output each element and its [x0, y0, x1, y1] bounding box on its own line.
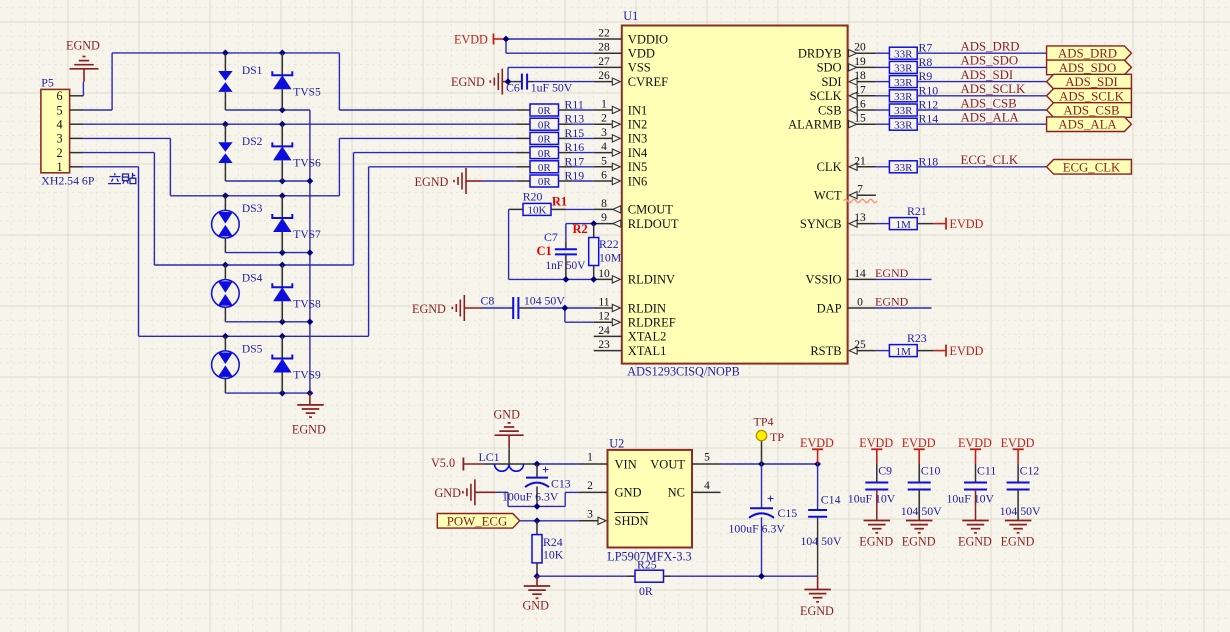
svg-text:U1: U1 — [623, 9, 638, 23]
resistor R7 33R — [876, 41, 1047, 61]
svg-text:R20: R20 — [523, 190, 543, 204]
svg-text:DAP: DAP — [817, 301, 842, 315]
svg-text:19: 19 — [854, 56, 866, 68]
svg-text:C6: C6 — [506, 81, 520, 95]
regulator U2 LP5907 body — [607, 437, 692, 564]
TVS diode TVS7 — [272, 196, 321, 253]
svg-text:IN6: IN6 — [628, 174, 647, 188]
U1 pin 5 IN5 — [594, 155, 648, 174]
U1 pin 21 CLK — [817, 155, 876, 174]
svg-text:6: 6 — [601, 170, 607, 182]
svg-text:ADS_SDI: ADS_SDI — [1065, 75, 1118, 89]
svg-text:0: 0 — [857, 297, 863, 309]
resistor R19 0R — [516, 169, 594, 189]
svg-text:GND: GND — [615, 486, 642, 500]
junction DS5 top — [222, 333, 229, 340]
port ADS_SDO — [1047, 60, 1132, 75]
power EVDD (at C9) — [859, 436, 893, 464]
U1 pin 14 VSSIO — [805, 268, 875, 287]
resistor R25 0R — [627, 558, 671, 599]
resistor R17 0R — [516, 154, 594, 174]
wire VOUT to EVDD — [721, 463, 818, 465]
net label ADS_DRD — [961, 40, 1020, 54]
ground EGND (below diode bus) — [292, 393, 326, 436]
port ADS_SDI — [1047, 74, 1132, 89]
svg-text:SDI: SDI — [821, 75, 841, 89]
wire IN2 net (P5.4 to R13) — [83, 123, 515, 125]
U1 pin 11 RLDIN — [594, 297, 666, 316]
svg-text:ADS_DRD: ADS_DRD — [961, 40, 1020, 54]
junction TVS8 bottom — [279, 318, 286, 325]
svg-text:25: 25 — [854, 339, 866, 351]
svg-text:10uF 10V: 10uF 10V — [947, 492, 995, 506]
power EVDD (VOUT) — [800, 436, 834, 464]
svg-text:R22: R22 — [599, 237, 619, 251]
svg-text:0R: 0R — [538, 148, 552, 160]
svg-text:12: 12 — [598, 311, 610, 323]
junction EVDD-C14 — [814, 461, 821, 468]
svg-text:DS1: DS1 — [242, 65, 263, 77]
U2 pin 1 VIN — [579, 452, 637, 472]
svg-text:C12: C12 — [1020, 464, 1040, 478]
connector P5 value label XH2.54 6P — [41, 173, 136, 188]
svg-text:TVS6: TVS6 — [293, 158, 321, 170]
junction TVS9 top — [279, 333, 286, 340]
svg-text:EGND: EGND — [958, 535, 992, 549]
U1 pin 7 WCT — [814, 184, 876, 203]
U2 pin 2 GND — [579, 480, 642, 500]
TVS diode TVS9 — [272, 336, 321, 393]
power EVDD (at R23) — [934, 344, 984, 358]
svg-text:1: 1 — [601, 99, 607, 111]
resistor R24 10K — [532, 521, 564, 576]
diode DS2 — [218, 124, 262, 181]
junction TVS7 top — [279, 192, 286, 199]
U1 pin 10 RLDINV — [594, 268, 675, 287]
svg-text:TP: TP — [770, 430, 784, 444]
ground EGND (output rail) — [800, 576, 834, 618]
svg-text:EGND: EGND — [800, 604, 834, 618]
svg-text:VIN: VIN — [615, 457, 637, 471]
U1 pin 12 RLDREF — [594, 311, 676, 330]
net label EGND (pin 0) — [875, 295, 909, 309]
capacitor C10 104 50V — [901, 464, 942, 521]
svg-text:33R: 33R — [894, 91, 913, 103]
svg-text:R21: R21 — [907, 204, 927, 218]
svg-text:EGND: EGND — [451, 75, 485, 89]
filter LC1 — [479, 448, 538, 471]
svg-text:ADS_ALA: ADS_ALA — [1058, 118, 1117, 132]
resistor R8 33R — [876, 55, 1047, 75]
svg-text:C13: C13 — [551, 477, 571, 491]
svg-text:EVDD: EVDD — [950, 344, 984, 358]
svg-text:104 50V: 104 50V — [524, 294, 565, 308]
U1 pin 19 SDO — [817, 56, 876, 75]
svg-text:3: 3 — [56, 132, 62, 146]
svg-text:33R: 33R — [894, 63, 913, 75]
svg-text:EGND: EGND — [66, 39, 100, 53]
svg-text:R23: R23 — [907, 331, 927, 345]
svg-text:26: 26 — [598, 70, 610, 82]
svg-text:EGND: EGND — [902, 535, 936, 549]
net label ADS_ALA — [961, 111, 1020, 125]
U1 pin 20 DRDYB — [798, 42, 876, 61]
red overlay label C1 — [537, 244, 552, 258]
net label EGND (pin 14) — [875, 266, 909, 280]
svg-text:100uF 6.3V: 100uF 6.3V — [502, 490, 559, 504]
svg-text:RLDOUT: RLDOUT — [628, 217, 679, 231]
svg-text:6: 6 — [56, 89, 62, 103]
junction TVS5 bottom — [279, 107, 286, 114]
svg-text:SCLK: SCLK — [810, 89, 842, 103]
capacitor C14 104 50V — [801, 464, 842, 576]
capacitor C11 10uF 10V — [947, 464, 997, 521]
ground EGND (at C8) — [412, 295, 482, 321]
wire IN5 net (P5.1 detour through DS5 tops to R17) — [83, 167, 515, 336]
svg-text:0R: 0R — [538, 119, 552, 131]
svg-text:ADS_SDO: ADS_SDO — [961, 54, 1019, 68]
svg-text:4: 4 — [601, 141, 607, 153]
svg-text:ADS_CSB: ADS_CSB — [961, 96, 1017, 110]
svg-text:2: 2 — [56, 146, 62, 160]
svg-text:15: 15 — [854, 113, 866, 125]
svg-text:RLDIN: RLDIN — [628, 301, 666, 315]
svg-text:ECG_CLK: ECG_CLK — [961, 153, 1019, 167]
svg-text:IN4: IN4 — [628, 146, 648, 160]
junction bus row DS5 — [307, 390, 314, 397]
svg-text:13: 13 — [854, 212, 866, 224]
svg-text:DS4: DS4 — [242, 272, 263, 284]
junction DS4 top — [222, 262, 229, 269]
resistor R15 0R — [516, 126, 594, 146]
svg-text:33R: 33R — [894, 48, 913, 60]
junction TVS6 bottom — [279, 178, 286, 185]
svg-text:5: 5 — [601, 155, 607, 167]
port ADS_SCLK — [1047, 89, 1132, 104]
svg-text:21: 21 — [854, 155, 866, 167]
svg-text:EVDD: EVDD — [859, 436, 893, 450]
svg-text:7: 7 — [857, 184, 863, 196]
ground EGND (at R19 input) — [415, 168, 516, 194]
resistor R12 33R — [876, 98, 1047, 118]
junction EGND-C6 node — [505, 78, 512, 85]
svg-text:10K: 10K — [543, 548, 564, 562]
junction TP4 — [758, 461, 765, 468]
wire RLDOUT node — [566, 224, 594, 242]
svg-text:EGND: EGND — [875, 266, 909, 280]
svg-text:ADS_CSB: ADS_CSB — [1063, 104, 1119, 118]
capacitor C13 100uF 6.3V — [502, 463, 571, 506]
ground EGND (top-left) — [66, 39, 100, 82]
junction RLDOUT-R22 — [590, 220, 597, 227]
svg-text:SHDN: SHDN — [615, 514, 649, 528]
U1 pin 9 RLDOUT — [594, 212, 679, 231]
svg-text:1: 1 — [587, 452, 593, 464]
svg-text:XTAL1: XTAL1 — [628, 344, 667, 358]
svg-text:5: 5 — [56, 103, 62, 117]
svg-text:3: 3 — [587, 508, 593, 520]
svg-text:18: 18 — [854, 70, 866, 82]
port ECG_CLK — [1047, 160, 1132, 175]
ground EGND (at C6) — [451, 69, 508, 95]
svg-text:XTAL2: XTAL2 — [628, 330, 667, 344]
power EVDD (U1 supply) — [454, 32, 506, 46]
svg-text:RLDINV: RLDINV — [628, 273, 675, 287]
svg-text:ADS_SCLK: ADS_SCLK — [1059, 89, 1124, 103]
svg-text:104 50V: 104 50V — [901, 504, 942, 518]
svg-text:22: 22 — [598, 28, 610, 40]
svg-text:DRDYB: DRDYB — [798, 47, 842, 61]
junction C15-rail — [758, 573, 765, 580]
svg-text:CSB: CSB — [818, 103, 842, 117]
svg-text:ADS1293CISQ/NOPB: ADS1293CISQ/NOPB — [627, 365, 739, 379]
junction DS3 top — [222, 192, 229, 199]
svg-text:VSSIO: VSSIO — [805, 273, 841, 287]
wire EGND to VSS/CVREF — [508, 67, 594, 81]
svg-text:1M: 1M — [896, 346, 912, 358]
U1 pin 28 VDD — [594, 42, 655, 61]
resistor R23 1M — [876, 331, 934, 358]
svg-text:ALARMB: ALARMB — [788, 118, 841, 132]
svg-text:TVS8: TVS8 — [293, 298, 321, 310]
svg-text:VDDIO: VDDIO — [628, 32, 668, 46]
svg-text:ADS_SDI: ADS_SDI — [961, 68, 1014, 82]
svg-text:20: 20 — [854, 42, 866, 54]
U1 pin 18 SDI — [821, 70, 875, 89]
power EVDD (at C12) — [1001, 436, 1035, 464]
U2 pin 5 VOUT — [650, 452, 720, 472]
svg-text:24: 24 — [598, 325, 610, 337]
U1 pin 6 IN6 — [594, 170, 648, 189]
junction V5-C13 — [534, 461, 541, 468]
red overlay label R2 — [573, 222, 588, 236]
junction TVS7 bottom — [279, 249, 286, 256]
resistor R16 0R — [516, 140, 594, 160]
op-amp U1 ADS1293 body — [622, 9, 848, 379]
svg-text:GND: GND — [435, 486, 462, 500]
wire EVDD to pins 22/28 — [506, 39, 594, 53]
power EVDD (at R21) — [934, 217, 984, 231]
ground GND (below R24) — [523, 576, 551, 612]
svg-text:0R: 0R — [538, 176, 552, 188]
net label ADS_SCLK — [961, 82, 1026, 96]
diode DS4 — [212, 265, 263, 322]
wire V5 node to U2 VIN — [537, 463, 579, 465]
svg-text:RSTB: RSTB — [810, 344, 841, 358]
svg-text:3: 3 — [601, 127, 607, 139]
svg-text:SYNCB: SYNCB — [800, 217, 842, 231]
resistor R21 1M — [876, 204, 934, 231]
junction EVDD pin22 — [503, 36, 510, 43]
svg-text:ADS_SCLK: ADS_SCLK — [961, 82, 1026, 96]
svg-text:5: 5 — [704, 452, 710, 464]
junction bus row DS3 — [307, 249, 314, 256]
svg-text:10K: 10K — [528, 205, 547, 217]
svg-text:ADS_DRD: ADS_DRD — [1058, 47, 1117, 61]
svg-text:1nF 50V: 1nF 50V — [546, 260, 587, 272]
net label ADS_SDI — [961, 68, 1014, 82]
svg-text:IN3: IN3 — [628, 132, 647, 146]
svg-text:33R: 33R — [894, 162, 913, 174]
junction C7-RLDINV — [563, 276, 570, 283]
U1 pin 17 SCLK — [810, 84, 876, 103]
junction TVS6 top — [279, 121, 286, 128]
junction R22-RLDINV — [590, 276, 597, 283]
svg-text:TVS5: TVS5 — [293, 86, 321, 98]
svg-text:0R: 0R — [538, 105, 552, 117]
junction R24-GND rail — [534, 573, 541, 580]
diode DS1 — [218, 53, 262, 110]
net label ECG_CLK — [961, 153, 1019, 167]
U1 pin 27 VSS — [594, 56, 651, 75]
U1 pin 22 VDDIO — [594, 28, 668, 47]
svg-text:C10: C10 — [921, 464, 941, 478]
wire P5 pin6 to EGND — [82, 82, 84, 96]
junction RLDIN branch — [562, 305, 569, 312]
svg-text:CLK: CLK — [817, 160, 842, 174]
ground EGND (below C10) — [902, 521, 936, 549]
svg-text:33R: 33R — [894, 105, 913, 117]
svg-text:1: 1 — [56, 160, 62, 174]
svg-text:ECG_CLK: ECG_CLK — [1063, 160, 1121, 174]
test point TP4 — [754, 415, 785, 465]
resistor R11 0R — [516, 98, 594, 118]
ground EGND (below C9) — [859, 521, 893, 549]
resistor R10 33R — [876, 83, 1047, 103]
svg-text:R25: R25 — [637, 558, 657, 572]
wire CMOUT to R20 and down to RLDINV — [509, 209, 594, 279]
svg-text:11: 11 — [598, 297, 609, 309]
svg-text:VDD: VDD — [628, 47, 655, 61]
wire VSSIO to EGND label — [876, 278, 932, 280]
TVS diode TVS5 — [272, 53, 321, 110]
junction TVS5 top — [279, 50, 286, 57]
svg-text:GND: GND — [523, 599, 550, 613]
svg-text:EVDD: EVDD — [902, 436, 936, 450]
U1 pin 8 CMOUT — [594, 198, 674, 217]
U1 pin 1 IN1 — [594, 99, 648, 118]
U1 pin 13 SYNCB — [800, 212, 876, 231]
U2 pin 3 SHDN — [579, 508, 649, 528]
wire IN3 net (P5.3 detour through DS3 tops to R15) — [83, 138, 515, 195]
resistor R20 10K — [509, 190, 566, 217]
junction DS2 top — [222, 121, 229, 128]
resistor R14 33R — [876, 112, 1047, 132]
power EVDD (at C11) — [958, 436, 992, 464]
svg-text:WCT: WCT — [814, 189, 842, 203]
svg-text:VOUT: VOUT — [650, 457, 685, 471]
U1 pin 23 XTAL1 — [594, 339, 667, 358]
svg-text:POW_ECG: POW_ECG — [447, 514, 507, 528]
svg-text:1M: 1M — [896, 219, 912, 231]
svg-text:0R: 0R — [538, 134, 552, 146]
svg-text:104 50V: 104 50V — [1000, 504, 1041, 518]
svg-text:SDO: SDO — [817, 61, 842, 75]
svg-text:R1: R1 — [552, 195, 567, 209]
svg-text:RLDREF: RLDREF — [628, 316, 676, 330]
svg-text:14: 14 — [854, 268, 866, 280]
TVS diode TVS6 — [272, 124, 321, 181]
svg-text:ADS_ALA: ADS_ALA — [961, 111, 1020, 125]
junction C13-GND — [534, 503, 541, 510]
svg-text:10: 10 — [598, 268, 610, 280]
svg-text:C9: C9 — [878, 464, 892, 478]
ground GND (above LC1) — [494, 408, 524, 449]
junction TVS9 bottom — [279, 390, 286, 397]
resistor R22 10M — [589, 224, 622, 280]
junction bus row DS2 — [307, 178, 314, 185]
U2 pin 4 NC — [668, 480, 721, 500]
svg-text:EGND: EGND — [412, 302, 446, 316]
U1 pin 0 DAP — [817, 297, 876, 316]
svg-text:C11: C11 — [977, 464, 996, 478]
svg-text:+: + — [542, 463, 549, 477]
power V5.0 — [431, 456, 483, 471]
svg-text:EVDD: EVDD — [950, 217, 984, 231]
net label ADS_SDO — [961, 54, 1019, 68]
svg-text:XH2.54 6P: XH2.54 6P — [41, 174, 95, 188]
port ADS_CSB — [1047, 103, 1132, 118]
svg-text:NC: NC — [668, 486, 685, 500]
svg-text:VSS: VSS — [628, 61, 651, 75]
svg-text:9: 9 — [601, 212, 607, 224]
U1 pin 25 RSTB — [810, 339, 876, 358]
svg-text:10M: 10M — [599, 251, 622, 265]
svg-text:EVDD: EVDD — [958, 436, 992, 450]
svg-text:C7: C7 — [544, 230, 558, 244]
svg-text:C8: C8 — [481, 294, 495, 308]
svg-text:+: + — [767, 492, 774, 506]
wire clamp-bottom bus to EGND — [225, 110, 310, 393]
junction TVS8 top — [279, 262, 286, 269]
svg-text:100uF 6.3V: 100uF 6.3V — [729, 522, 786, 536]
capacitor C7 1nF 50V — [544, 230, 586, 279]
svg-text:0R: 0R — [538, 162, 552, 174]
U1 pin 24 XTAL2 — [594, 325, 667, 344]
red overlay label R1 — [552, 195, 567, 209]
connector P5 — [41, 76, 84, 175]
junction bus row DS4 — [307, 318, 314, 325]
resistor R9 33R — [876, 69, 1047, 89]
svg-text:EVDD: EVDD — [454, 32, 488, 46]
TVS diode TVS8 — [272, 265, 321, 322]
capacitor C6 1uF 50V — [506, 74, 573, 95]
svg-text:TVS7: TVS7 — [293, 229, 321, 241]
svg-text:10uF 10V: 10uF 10V — [848, 492, 896, 506]
svg-text:1uF 50V: 1uF 50V — [531, 81, 573, 95]
wire IN1 net (P5.5 riser + top rail + drop to R11) — [83, 53, 515, 110]
diode DS5 — [212, 336, 263, 393]
wire DAP to EGND label — [876, 307, 932, 309]
U1 pin 16 CSB — [818, 99, 876, 118]
svg-text:23: 23 — [598, 339, 610, 351]
resistor R13 0R — [516, 112, 594, 132]
svg-text:TP4: TP4 — [754, 415, 774, 429]
ground EGND (below C11) — [958, 521, 992, 549]
svg-text:C1: C1 — [537, 244, 552, 258]
wire POW_ECG to SHDN — [520, 520, 579, 522]
svg-text:R2: R2 — [573, 222, 588, 236]
svg-text:EVDD: EVDD — [800, 436, 834, 450]
svg-text:IN1: IN1 — [628, 103, 647, 117]
svg-text:16: 16 — [854, 99, 866, 111]
ground EGND (below C12) — [1001, 521, 1035, 549]
svg-text:CMOUT: CMOUT — [628, 203, 674, 217]
ground GND (U2 input) — [435, 479, 496, 505]
U1 pin 15 ALARMB — [788, 113, 876, 132]
svg-text:33R: 33R — [894, 77, 913, 89]
svg-text:LC1: LC1 — [479, 450, 500, 464]
